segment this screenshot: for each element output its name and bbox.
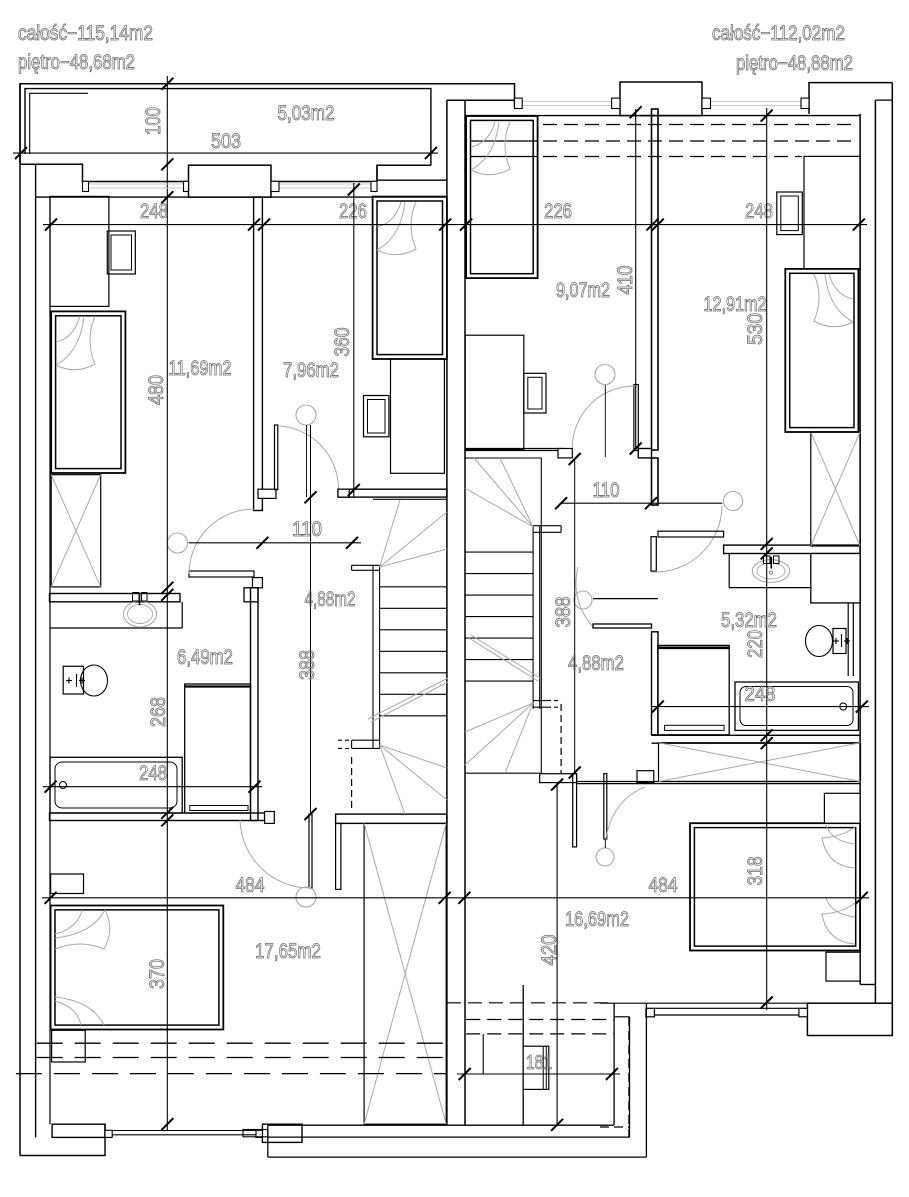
south wall left-unit	[20, 1124, 302, 1155]
svg-text:110: 110	[292, 518, 322, 541]
dim 268	[147, 697, 170, 727]
toilet right	[806, 626, 851, 657]
bed 11,69	[51, 311, 125, 473]
lamp hall left	[168, 533, 188, 553]
bed 17,65	[51, 906, 224, 1030]
dim 388 left	[296, 425, 319, 820]
bed 16,69	[690, 823, 860, 950]
svg-text:420: 420	[538, 935, 561, 966]
window 181	[523, 1046, 549, 1089]
left stair winders top	[380, 500, 447, 567]
porch slab left-unit	[243, 1125, 646, 1157]
window pier block	[189, 165, 272, 197]
chair 9,07	[524, 373, 546, 413]
svg-text:388: 388	[296, 650, 319, 680]
svg-text:360: 360	[331, 328, 354, 357]
wall piece below right bath door	[593, 624, 652, 628]
svg-text:484: 484	[236, 874, 265, 897]
svg-text:248: 248	[745, 200, 773, 223]
door to 12,91	[651, 506, 722, 572]
svg-text:388: 388	[552, 597, 575, 628]
svg-text:248: 248	[140, 200, 168, 223]
svg-text:całość−115,14m2: całość−115,14m2	[18, 22, 153, 45]
svg-text:268: 268	[147, 697, 170, 727]
door to 17,65	[240, 814, 312, 888]
dim 181	[457, 1052, 620, 1080]
wall above left stair	[338, 489, 447, 497]
dim chain right vertical	[761, 108, 773, 1010]
svg-text:503: 503	[211, 130, 241, 153]
lamp right hall	[724, 492, 743, 511]
right stair winders top	[465, 458, 533, 527]
sink right	[752, 556, 789, 582]
roof dashes bottom left	[16, 1043, 446, 1073]
svg-text:11,69m2: 11,69m2	[169, 357, 232, 380]
label 12,91m2	[704, 293, 767, 316]
X wardrobe 12,91	[811, 432, 860, 546]
svg-text:370: 370	[146, 959, 169, 989]
wall between 11,69 and 7,96	[254, 197, 263, 510]
svg-text:220: 220	[744, 630, 767, 658]
east wall	[860, 83, 892, 1036]
wall wardrobe-bath bottom	[652, 735, 861, 743]
right stair winders bottom	[465, 703, 533, 773]
dim 360 line	[348, 183, 360, 497]
inner face north right	[465, 115, 860, 117]
table 11,69	[107, 231, 135, 274]
window frame tabs north-left	[83, 181, 378, 191]
wall stub below right stair	[540, 774, 577, 847]
X box left 11,69	[51, 475, 100, 587]
table 12,91	[777, 192, 803, 235]
wardrobe 11,69	[50, 196, 109, 311]
dim 318	[744, 857, 767, 886]
svg-text:226: 226	[339, 200, 367, 223]
svg-text:226: 226	[544, 200, 572, 223]
door to 16,69	[604, 771, 654, 841]
right stair cut line	[469, 635, 540, 681]
window pier right	[620, 82, 702, 116]
door to 9,07	[572, 385, 638, 451]
X wardrobe right	[659, 743, 861, 782]
balcony label 5,03m2	[278, 102, 335, 125]
svg-text:12,91m2: 12,91m2	[704, 293, 767, 316]
right stair opening dashed	[560, 704, 562, 773]
svg-text:318: 318	[744, 857, 767, 886]
X tall wardrobe 17,65	[364, 823, 446, 1124]
sink counter left	[50, 602, 182, 628]
dim 484 line	[42, 892, 869, 904]
label 4,88m2 left	[305, 588, 356, 611]
porch dashes	[447, 1003, 614, 1034]
wall stub right of toilet	[848, 603, 853, 676]
label 17,65m2	[255, 940, 321, 963]
bath left north wall B	[244, 588, 258, 602]
party wall	[377, 100, 515, 1125]
svg-text:248: 248	[745, 683, 776, 706]
dim 226 top-left	[339, 200, 367, 223]
sink counter right	[729, 554, 811, 588]
dim 110 left	[189, 518, 361, 549]
dim 360 text	[331, 328, 354, 357]
dim 100 vertical	[142, 76, 173, 205]
svg-text:5,03m2: 5,03m2	[278, 102, 335, 125]
south wall right-unit	[807, 1003, 892, 1035]
corner block right bath	[811, 554, 860, 603]
shower left	[185, 684, 251, 813]
label 5,32m2	[721, 609, 777, 632]
porch walls center	[483, 783, 646, 1157]
svg-text:100: 100	[142, 107, 165, 135]
label 9,07m2	[556, 279, 610, 302]
door to 7,96	[258, 425, 339, 498]
lamp at door 7,96	[296, 405, 316, 497]
label 11,69m2	[169, 357, 232, 380]
wall bottom 9,07	[465, 449, 572, 458]
block above bed 17,65	[51, 874, 84, 894]
bathtub right	[735, 682, 858, 735]
toilet left	[63, 665, 107, 696]
left stair cut line	[368, 678, 448, 722]
dim 484 left text	[236, 874, 265, 897]
wardrobe 12,91	[804, 156, 860, 269]
label 6,49m2	[177, 646, 233, 669]
dim 410 text	[614, 266, 637, 295]
wall above 16,69	[577, 782, 861, 784]
window glazing north-right	[515, 102, 810, 106]
sink left	[124, 593, 157, 628]
svg-text:piętro−48,68m2: piętro−48,68m2	[18, 51, 135, 74]
label 7,96m2	[283, 359, 339, 382]
dim 530	[744, 313, 767, 345]
dim 248 bath-right	[651, 683, 869, 713]
dim 480	[145, 375, 168, 405]
dim 226 top-right	[544, 200, 572, 223]
wall between 9,07 and 12,91	[638, 109, 658, 505]
door right bath leaf	[576, 567, 658, 627]
svg-text:całość−112,02m2: całość−112,02m2	[712, 22, 845, 45]
wall hall-end piece	[253, 578, 263, 588]
svg-text:piętro−48,88m2: piętro−48,88m2	[736, 52, 853, 75]
wall hall-wardrobe right	[652, 632, 659, 735]
right staircase	[465, 458, 561, 774]
window tabs north-right	[515, 98, 810, 108]
lamp door 9,07	[595, 365, 615, 458]
bath door arc right	[676, 684, 736, 745]
bath left east wall	[251, 588, 259, 821]
svg-text:410: 410	[614, 266, 637, 295]
left stair winders bottom	[380, 745, 447, 814]
chair 7,96	[364, 396, 389, 437]
dim 484 right text	[649, 874, 678, 897]
bath left north wall A	[50, 594, 181, 602]
left staircase	[352, 499, 447, 748]
north wall right-unit corner	[809, 83, 892, 114]
wall 12,91-bath	[724, 545, 861, 553]
svg-text:16,69m2: 16,69m2	[565, 908, 629, 931]
bathtub left	[50, 757, 182, 813]
svg-text:181: 181	[526, 1052, 552, 1074]
wardrobe right hall	[658, 645, 729, 734]
window glazing south	[112, 1131, 262, 1135]
svg-text:4,88m2: 4,88m2	[305, 588, 356, 611]
bath left south wall	[50, 812, 275, 824]
wall right of bedroom door	[336, 814, 447, 889]
svg-text:17,65m2: 17,65m2	[255, 940, 321, 963]
dim 388 right	[552, 453, 581, 779]
window tabs south	[105, 1130, 262, 1137]
door to 11,69 leaf	[189, 509, 254, 577]
svg-text:530: 530	[744, 313, 767, 345]
svg-text:248: 248	[139, 762, 167, 785]
bed 12,91	[785, 269, 858, 432]
svg-text:6,49m2: 6,49m2	[177, 646, 233, 669]
block below bed 17,65	[52, 1030, 86, 1062]
svg-text:7,96m2: 7,96m2	[283, 359, 339, 382]
terrace door right-unit	[646, 1003, 808, 1017]
dim 110 right	[555, 479, 722, 509]
dim 370	[146, 959, 169, 989]
lamp bedroom door left	[296, 887, 316, 907]
dim 248 top-left	[140, 200, 168, 223]
desk 9,07	[465, 335, 524, 449]
dim 420 line	[538, 779, 563, 1131]
dim line top	[43, 219, 867, 231]
balcony outline	[20, 84, 515, 165]
lamp door 16,69	[596, 839, 614, 866]
bed 9,07	[466, 116, 537, 278]
window glazing north-left	[89, 184, 378, 188]
title left unit area text	[18, 22, 153, 74]
svg-text:9,07m2: 9,07m2	[556, 279, 610, 302]
dash-dot porch	[600, 1017, 629, 1143]
svg-text:480: 480	[145, 375, 168, 405]
wall top of right hall	[658, 531, 724, 537]
nightstand 16,69 bottom	[826, 952, 860, 981]
svg-text:4,88m2: 4,88m2	[568, 652, 624, 675]
left stair opening dashed	[338, 740, 352, 811]
dim chain left vertical	[161, 205, 173, 1130]
dim 248 bath-left	[43, 762, 262, 793]
dim 220	[744, 630, 767, 658]
nightstand 16,69 top	[824, 793, 860, 823]
svg-text:484: 484	[649, 874, 678, 897]
title right unit area text	[712, 22, 853, 75]
svg-text:5,32m2: 5,32m2	[721, 609, 777, 632]
roof dashes right top	[470, 125, 858, 157]
label 4,88m2 right	[568, 652, 624, 675]
north wall left-unit	[20, 164, 447, 197]
desk 7,96	[391, 359, 445, 473]
lamp right bath	[574, 591, 592, 609]
dim 503	[13, 130, 438, 159]
svg-text:110: 110	[593, 479, 620, 502]
label 16,69m2	[565, 908, 629, 931]
dim 248 top-right	[745, 200, 773, 223]
bed 7,96	[373, 197, 447, 359]
west wall	[20, 84, 50, 1156]
dim 410 line	[630, 106, 642, 454]
